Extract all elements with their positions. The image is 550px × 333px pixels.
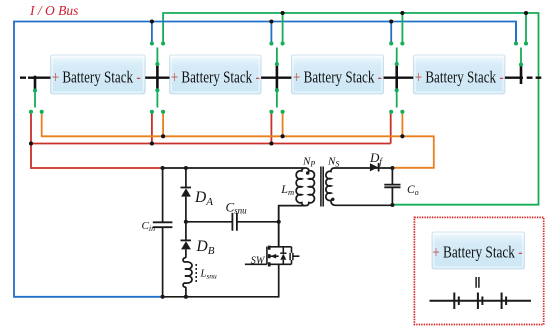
legend battery cell 2 — [478, 293, 483, 310]
svg-text:+ Battery Stack -: + Battery Stack - — [52, 67, 141, 86]
wire green J3 upper link — [396, 48, 398, 65]
junction dots blue bus — [150, 19, 393, 23]
core lines — [321, 167, 323, 207]
wire green drop J4 — [525, 13, 527, 42]
battery stack 2 — [170, 55, 262, 94]
wire bottom rail — [163, 264, 279, 297]
phase dot primary — [306, 171, 310, 175]
legend battery cell 3 — [502, 293, 507, 310]
wire blue drop J3 — [390, 22, 392, 43]
legend equals sign — [476, 277, 479, 288]
wire green J1 lower link — [156, 90, 158, 107]
mosfet arrow — [270, 254, 276, 259]
wire battery string segment block1-block2 — [145, 76, 169, 78]
svg-text:+ Battery Stack -: + Battery Stack - — [432, 243, 523, 262]
wire blue drop J2 — [270, 22, 272, 43]
wire battery string segment block4-T4 — [505, 76, 523, 78]
wire green J2 lower link — [276, 90, 278, 107]
wire green bus top — [163, 13, 538, 205]
wire green drop J2 — [282, 13, 284, 42]
green dots red orange tops — [29, 110, 405, 114]
green connector dots row y43.5 — [150, 41, 528, 45]
wire green J1 upper link — [156, 48, 158, 65]
svg-text:+ Battery Stack -: + Battery Stack - — [293, 67, 382, 86]
wire battery string segment block2-block3 — [261, 76, 291, 78]
wire battery string right dashes — [527, 76, 542, 78]
wire battery string segment T0-block1 — [32, 76, 51, 78]
legend dashed box — [414, 217, 543, 324]
capacitor C_o — [384, 185, 400, 188]
tick T2 — [276, 64, 279, 90]
wire battery string segment block3-block4 — [384, 76, 414, 78]
wire primary left scallops — [296, 168, 303, 205]
diode D_f — [370, 163, 379, 172]
junction dots orange bus — [161, 134, 404, 138]
svg-text:+ Battery Stack -: + Battery Stack - — [171, 67, 260, 86]
battery stack 1 — [51, 55, 146, 94]
legend battery string wire — [430, 300, 532, 302]
wire green J0 lower link — [34, 91, 36, 108]
wire blue bus top — [14, 22, 516, 297]
wire green J2 upper link — [276, 48, 278, 65]
tick T0 — [34, 76, 37, 91]
tick T1 — [156, 64, 159, 90]
wire secondary output right — [391, 168, 393, 205]
legend battery stack block — [432, 232, 525, 269]
mosfet SW — [245, 246, 300, 267]
battery stack 3 — [291, 55, 383, 94]
legend battery cell 1 — [454, 293, 459, 310]
svg-text:SW: SW — [251, 255, 266, 266]
green dots tick tops and bottoms — [33, 62, 523, 93]
wire battery string left dashes — [20, 76, 34, 78]
svg-text:I / O Bus: I / O Bus — [29, 3, 78, 18]
wire blue drop J1 — [151, 22, 153, 43]
converter circuit black wires — [163, 168, 393, 297]
tick T4 — [520, 65, 523, 85]
wire green J3 lower link — [396, 90, 398, 107]
wire green drop J3 — [401, 13, 403, 42]
phase dot secondary — [331, 198, 334, 201]
diode D_B — [181, 240, 192, 249]
battery stack 4 — [413, 55, 505, 94]
wire top rail and primary right scallops and drain rail — [163, 168, 315, 247]
wire green J4 upper link — [520, 48, 522, 65]
wire blue drop J4 — [515, 22, 517, 43]
capacitor C_in — [153, 222, 173, 227]
wire red bus — [31, 112, 391, 168]
wire C_in branch — [162, 168, 164, 297]
capacitor C_snu — [232, 213, 237, 231]
mosfet body diode — [280, 253, 286, 260]
wire DA DB branch — [185, 168, 187, 297]
wire orange bus — [42, 112, 434, 168]
tick T3 — [395, 64, 398, 90]
junction dots green bus — [281, 11, 528, 15]
wire secondary top and coil — [326, 168, 393, 205]
inductor L_snu — [183, 258, 192, 288]
junction dots red bus — [29, 141, 274, 145]
diode D_A — [181, 188, 192, 197]
core dashes L_snu — [195, 264, 197, 283]
svg-text:+ Battery Stack -: + Battery Stack - — [415, 67, 504, 86]
junction dots circuit — [161, 166, 395, 299]
wire snubber node — [186, 206, 279, 247]
